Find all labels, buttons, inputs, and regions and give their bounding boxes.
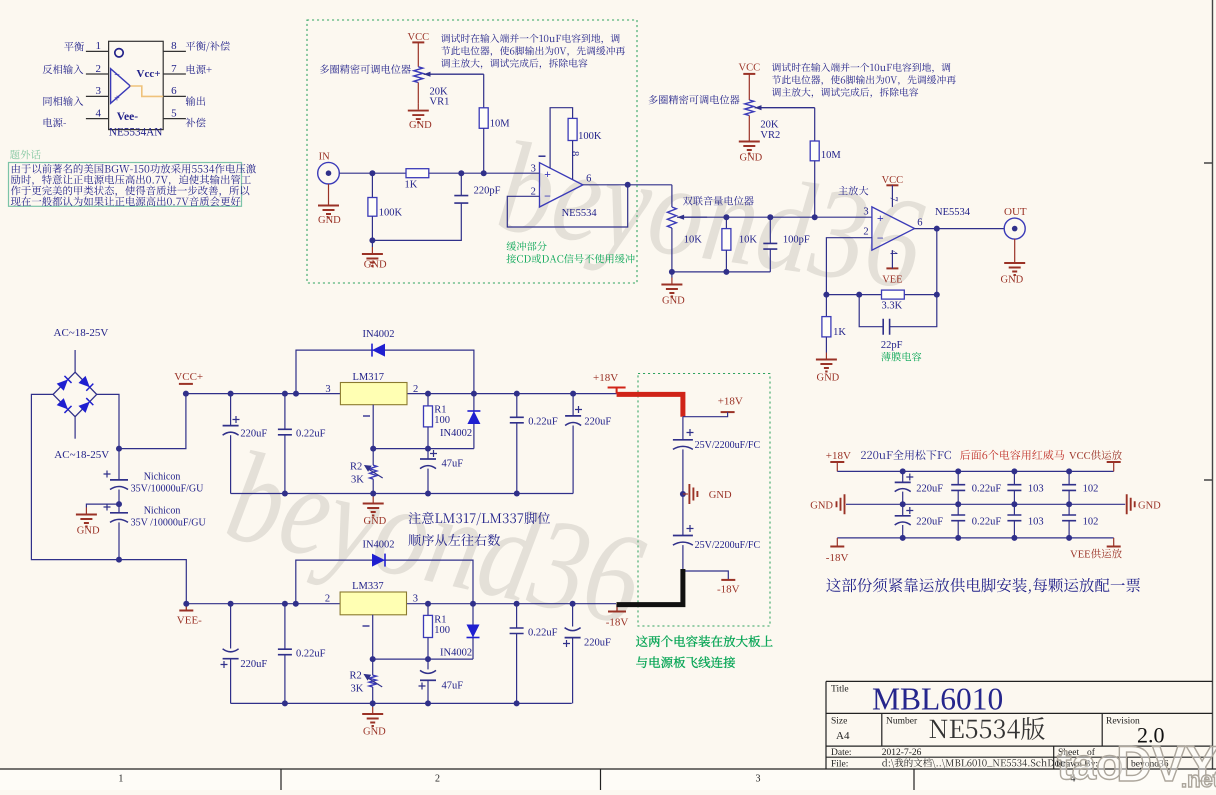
- connector OUT: [1004, 218, 1025, 239]
- svg-text:VR2: VR2: [760, 130, 780, 141]
- svg-text:+: +: [544, 167, 551, 181]
- wire to R1: [427, 604, 429, 616]
- svg-text:6: 6: [917, 218, 922, 229]
- pin 5 stub right: [163, 118, 186, 120]
- junction diode right: [471, 391, 477, 397]
- svg-text:GND: GND: [77, 526, 100, 537]
- wire 100K to pin8: [572, 141, 574, 180]
- ground LM317 section: [372, 497, 374, 503]
- junction: [514, 491, 520, 497]
- svg-text:GND: GND: [817, 373, 840, 384]
- wire IN to gnd: [328, 184, 330, 199]
- junction plus/caps: [116, 446, 122, 452]
- pin 7 stub right: [163, 73, 186, 75]
- rheostat R2 3K (neg): [369, 675, 376, 687]
- wire 1K to op-amp pin3: [429, 172, 540, 174]
- label VEE gong yunfang suffix: [1091, 549, 1122, 559]
- diode IN4002 vertical: [467, 411, 480, 424]
- junction 10M/signal: [812, 214, 818, 220]
- capacitor 0.22uF bank top: [951, 485, 965, 491]
- svg-text:GND: GND: [1001, 274, 1024, 285]
- wire: [1013, 504, 1015, 515]
- junction diode left: [293, 601, 299, 607]
- svg-text:−: −: [114, 70, 120, 81]
- svg-text:10M: 10M: [490, 118, 511, 129]
- wire diode2 branch: [472, 604, 474, 659]
- svg-text:6: 6: [171, 85, 177, 97]
- svg-text:0.22uF: 0.22uF: [972, 484, 1002, 495]
- +18V bar: [830, 461, 844, 463]
- wire 220pF to gnd node: [372, 203, 461, 240]
- label pin6 output: [186, 96, 206, 106]
- ground supply midpoint: [85, 508, 87, 514]
- wire to C 220uF: [230, 604, 232, 649]
- wire to R 100K: [371, 173, 373, 197]
- wire VCC+ rail left: [186, 393, 341, 395]
- junction 220uF out: [570, 391, 576, 397]
- svg-text:VEE: VEE: [882, 274, 902, 285]
- junction input/10M: [481, 170, 487, 176]
- wire AC bottom stub: [74, 417, 76, 439]
- junction 10K/rail: [723, 269, 729, 275]
- junction 0.22uF/gnd: [282, 491, 288, 497]
- junction mid: [900, 501, 906, 507]
- junction 3.3K/output: [934, 292, 940, 298]
- capacitor 25V/2200uF/FC 1: [673, 439, 693, 441]
- note caps on amp board line2: [636, 656, 735, 668]
- svg-text:−: −: [877, 231, 884, 245]
- ground left (sideways): [837, 494, 845, 514]
- junction top: [900, 468, 906, 474]
- junction output/fb: [934, 226, 940, 232]
- note VR1 line2: [441, 46, 625, 56]
- orange output wire: [130, 86, 163, 96]
- capacitor 102 bank top: [1062, 485, 1076, 491]
- wire R2 to gnd rail: [372, 479, 374, 493]
- wire 100pF to rail: [769, 249, 771, 272]
- note pinout line2: [408, 534, 500, 546]
- volume pot wiper arrow: [677, 216, 707, 218]
- -18V flag bar: [721, 579, 735, 581]
- ground right (sideways): [1127, 494, 1135, 514]
- wire plus to VCC+: [119, 394, 186, 449]
- svg-text:220uF: 220uF: [584, 637, 611, 648]
- -18V power bar: [608, 611, 626, 613]
- potentiometer VR2: [745, 100, 754, 116]
- wire to C 220uF: [230, 394, 232, 426]
- label pin1 pingheng: [64, 42, 84, 51]
- wire to C 0.22uF out: [516, 604, 518, 628]
- resistor 10M (main): [810, 141, 819, 161]
- wire R2 to gnd rail: [372, 687, 374, 703]
- junction output/feedback: [625, 182, 631, 188]
- junction 220uF: [228, 601, 234, 607]
- svg-text:1K: 1K: [405, 179, 418, 190]
- label pin4 power-: [44, 118, 66, 127]
- +18V flag bar: [721, 411, 735, 413]
- svg-text:Vee-: Vee-: [117, 111, 138, 123]
- ground below VR2: [748, 135, 750, 141]
- remark box: [9, 163, 242, 207]
- wire to gnd symbol: [372, 494, 374, 497]
- wire to C 220uF out: [572, 604, 574, 627]
- rheostat R2 3K: [370, 465, 377, 479]
- VR1 wiper arrow: [424, 73, 484, 75]
- resistor 100K (comp): [568, 118, 577, 140]
- wire VCC+ rail right: [407, 393, 617, 395]
- svg-text:10K: 10K: [739, 234, 758, 245]
- svg-text:7: 7: [171, 63, 177, 75]
- junction R1 top: [425, 391, 431, 397]
- wire node to gnd: [371, 240, 373, 247]
- svg-text:tao: tao: [1057, 740, 1123, 789]
- svg-text:IN4002: IN4002: [440, 648, 472, 659]
- svg-text:100pF: 100pF: [783, 234, 810, 245]
- svg-text:25V/2200uF/FC: 25V/2200uF/FC: [695, 540, 761, 551]
- wire to C 220uF out: [572, 394, 574, 416]
- svg-text:6: 6: [586, 174, 591, 185]
- svg-text:220uF: 220uF: [584, 417, 611, 428]
- svg-text:Nichicon: Nichicon: [144, 472, 181, 483]
- wire 220uF to gnd: [572, 426, 574, 494]
- svg-text:IN: IN: [319, 152, 330, 163]
- wire: [1068, 521, 1070, 538]
- wire gnd rail: [672, 271, 770, 273]
- wire output to fb rail: [936, 229, 938, 295]
- junction VEE- rail: [183, 601, 189, 607]
- svg-text:5: 5: [171, 107, 177, 119]
- wire to C 47uF: [427, 449, 429, 459]
- wire to R 1K: [825, 295, 827, 317]
- svg-text:VEE: VEE: [1070, 550, 1090, 561]
- remark line1: [12, 164, 256, 174]
- svg-text:VCC: VCC: [408, 32, 430, 43]
- svg-text:0.22uF: 0.22uF: [528, 627, 558, 638]
- svg-text:NE5534AN: NE5534AN: [109, 127, 162, 139]
- note LM317/LM337 pinout line1: [409, 512, 551, 526]
- junction bottom: [900, 535, 906, 541]
- svg-text:3K: 3K: [351, 474, 364, 485]
- svg-text:R2: R2: [350, 462, 362, 473]
- svg-text:GND: GND: [709, 490, 732, 501]
- connector IN: [318, 162, 340, 184]
- diode IN4002 top (neg): [372, 554, 385, 567]
- watermark taoDVY.net: [1057, 736, 1216, 792]
- ground (sideways): [683, 493, 688, 495]
- note red wima caps: [960, 450, 1064, 460]
- junction ADJ: [370, 656, 376, 662]
- svg-text:GND: GND: [363, 727, 386, 738]
- svg-text:3.3K: 3.3K: [882, 301, 903, 312]
- capacitor 0.22uF output: [510, 417, 524, 423]
- svg-text:102: 102: [1083, 484, 1099, 495]
- svg-text:File:: File:: [831, 759, 848, 769]
- stub: [836, 538, 838, 547]
- junction 0.22uF out: [514, 391, 520, 397]
- junction wiper/10K: [723, 214, 729, 220]
- svg-text:A4: A4: [836, 730, 850, 742]
- svg-text:100K: 100K: [379, 208, 403, 219]
- wire R1 to ADJ rail: [427, 427, 429, 449]
- wire to C big1: [118, 449, 120, 480]
- pin 4 stub left: [86, 118, 109, 120]
- wire feedback loop U1: [507, 185, 627, 227]
- label multiturn pot (VR2): [649, 95, 740, 105]
- op-amp U1 NE5534 buffer: [540, 163, 583, 207]
- VEE- power bar: [179, 610, 193, 612]
- svg-text:10K: 10K: [684, 234, 703, 245]
- thick black -18V wire: [617, 569, 683, 605]
- wire bridge minus to VEE rail: [31, 394, 186, 603]
- svg-text:−: −: [544, 189, 551, 203]
- wire 220uF to gnd rail: [230, 659, 232, 704]
- svg-text:103: 103: [1028, 484, 1044, 495]
- wire gnd rail (337): [231, 702, 572, 704]
- capacitor 220uF output: [565, 415, 581, 417]
- wire diode2 branch: [473, 394, 475, 449]
- pin 2 stub left: [86, 73, 109, 75]
- wire 22pF left: [859, 295, 883, 327]
- wire: [1068, 504, 1070, 515]
- svg-text:220uF: 220uF: [240, 659, 267, 670]
- junction 100K/220pF: [369, 237, 375, 243]
- wire ADJ down: [372, 615, 374, 659]
- wire: [902, 471, 904, 482]
- wire 22pF right: [890, 295, 937, 327]
- remark line4: [11, 196, 241, 206]
- ground below OUT: [1014, 256, 1016, 262]
- junction 220uF out: [570, 601, 576, 607]
- junction R1 top: [425, 601, 431, 607]
- svg-text:35V/10000uF/GU: 35V/10000uF/GU: [131, 484, 205, 495]
- label remark title: [10, 150, 41, 160]
- regulator LM337: [340, 592, 406, 615]
- capacitor 35V/10000uF 2: [110, 512, 128, 514]
- junction mid: [955, 501, 961, 507]
- IC body NE5534AN: [109, 41, 164, 129]
- svg-text:Date:: Date:: [831, 748, 852, 758]
- svg-text:1: 1: [118, 774, 123, 785]
- wire pin1 to 100K: [550, 108, 573, 169]
- wire VCC to VR1: [417, 42, 419, 66]
- thick red +18V wire: [617, 394, 683, 416]
- svg-text:2012-7-26: 2012-7-26: [882, 748, 922, 758]
- svg-text:0.22uF: 0.22uF: [972, 517, 1002, 528]
- wire IN to R 1K: [339, 172, 406, 174]
- resistor R1 100 (neg): [424, 615, 433, 637]
- svg-text:VCC: VCC: [1069, 451, 1091, 462]
- svg-text:35V /10000uF/GU: 35V /10000uF/GU: [131, 518, 207, 529]
- svg-text:+: +: [877, 211, 884, 225]
- note 220uF panasonic FC: [861, 450, 951, 460]
- resistor R1 100: [424, 406, 433, 427]
- svg-text:1: 1: [96, 40, 102, 52]
- wire bottom rail: [837, 537, 1113, 539]
- wire to C 0.22uF out: [516, 394, 518, 418]
- diode IN4002 vertical (neg): [467, 625, 480, 638]
- capacitor 220uF input (neg): [223, 658, 239, 660]
- svg-text:8: 8: [569, 151, 580, 156]
- wire to gnd rail: [516, 634, 518, 704]
- svg-text:GND: GND: [318, 215, 341, 226]
- wire feedback rail: [826, 294, 936, 296]
- ground below IN: [328, 199, 330, 205]
- label buffer section: [507, 241, 547, 250]
- wire ADJ rail: [373, 658, 473, 660]
- svg-text:.net: .net: [1181, 767, 1216, 790]
- junction pot/gnd rail: [669, 269, 675, 275]
- VEE bar: [1107, 546, 1121, 548]
- svg-text:AC~18-25V: AC~18-25V: [54, 327, 109, 339]
- junction bottom: [955, 535, 961, 541]
- svg-text:NE5534: NE5534: [562, 208, 598, 219]
- svg-text:IN4002: IN4002: [362, 329, 394, 340]
- wire ADJ down: [372, 405, 374, 449]
- svg-text:GND: GND: [364, 516, 387, 527]
- svg-text:100: 100: [434, 625, 450, 636]
- wire to R 10K: [725, 217, 727, 228]
- wire: [1013, 521, 1015, 538]
- stub: [836, 462, 838, 471]
- wire VEE rail left: [186, 603, 340, 605]
- wire cap1 to cap2: [682, 449, 684, 535]
- label pin5 comp: [186, 118, 206, 127]
- svg-text:Vcc+: Vcc+: [137, 68, 161, 80]
- svg-text:Title: Title: [831, 685, 849, 695]
- wire VR1 to gnd: [417, 83, 419, 104]
- capacitor 103 bank top: [1007, 485, 1021, 491]
- svg-text:Number: Number: [886, 717, 918, 727]
- potentiometer volume 10K: [667, 207, 676, 228]
- junction big caps bottom: [116, 557, 122, 563]
- junction R1/47uF: [425, 656, 431, 662]
- svg-text:GND: GND: [409, 120, 432, 131]
- ADJ pin mark: [363, 415, 370, 417]
- svg-text:25V/2200uF/FC: 25V/2200uF/FC: [695, 440, 761, 451]
- stub: [1113, 462, 1115, 471]
- svg-text:1K: 1K: [833, 327, 846, 338]
- capacitor 100pF: [763, 243, 777, 249]
- label pin3 noninverting input: [43, 96, 83, 106]
- svg-text:2: 2: [96, 63, 102, 75]
- wire 0.22uF to gnd: [516, 423, 518, 494]
- label pin2 inverting input: [43, 64, 84, 74]
- junction mid: [1066, 501, 1072, 507]
- svg-text:GND: GND: [810, 500, 833, 511]
- wire VCC pin7: [891, 185, 893, 207]
- wire ADJ to R2: [372, 449, 374, 466]
- wire bridge plus down: [97, 394, 119, 448]
- wire: [1068, 471, 1070, 484]
- note VR2 line1: [772, 63, 951, 73]
- junction 1K/fb: [823, 292, 829, 298]
- sheet right border: [1204, 0, 1213, 769]
- svg-text:3K: 3K: [351, 683, 364, 694]
- wire wiper to R 10M: [814, 108, 816, 141]
- junction 47uF/gnd: [425, 700, 431, 706]
- svg-text:GND: GND: [740, 153, 763, 164]
- svg-text:3: 3: [531, 164, 536, 175]
- buffer section dashed box: [307, 20, 637, 283]
- wire: [902, 492, 904, 505]
- wire R1 to ADJ rail: [427, 638, 429, 660]
- capacitor 0.22uF bank bottom: [951, 515, 965, 521]
- wire to gnd: [671, 272, 673, 278]
- svg-text:-18V: -18V: [826, 552, 849, 564]
- svg-text:220pF: 220pF: [474, 186, 501, 197]
- capacitor 102 bank bottom: [1062, 515, 1076, 521]
- note VR1 line1: [441, 34, 620, 44]
- svg-text:Revision: Revision: [1106, 717, 1140, 727]
- label main amp: [838, 186, 868, 195]
- capacitor 220uF bank top: [895, 481, 911, 483]
- diode bridge bottom-left: [57, 398, 72, 413]
- wire ADJ rail: [373, 448, 474, 450]
- junction R1/47uF: [425, 446, 431, 452]
- svg-text:2: 2: [325, 594, 330, 605]
- svg-text:-18V: -18V: [606, 617, 629, 629]
- wire big1 to big2: [118, 490, 120, 513]
- junction mid: [1011, 501, 1017, 507]
- title block frame: [826, 681, 1213, 769]
- svg-text:GND: GND: [1138, 500, 1161, 511]
- remark line3: [11, 186, 249, 197]
- svg-text:3: 3: [756, 774, 761, 785]
- stub: [1113, 538, 1115, 547]
- junction input/220pF: [458, 170, 464, 176]
- svg-text:0.22uF: 0.22uF: [296, 649, 326, 660]
- wire gnd rail (317): [231, 493, 573, 495]
- svg-text:100: 100: [434, 415, 450, 426]
- wire gnd rail: [846, 503, 1125, 505]
- wire midpoint to gnd: [86, 504, 119, 507]
- wire flag to cap: [683, 412, 728, 417]
- resistor 10M (buffer): [479, 108, 488, 129]
- svg-text:103: 103: [1028, 517, 1044, 528]
- pin 1 stub left: [86, 50, 109, 52]
- VCC power bar: [743, 73, 755, 75]
- svg-text:10M: 10M: [821, 150, 842, 161]
- junction midpoint: [116, 501, 122, 507]
- wire: [1013, 490, 1015, 504]
- +18V stub: [616, 388, 618, 394]
- number NE5534 ban: [930, 717, 1045, 740]
- junction top: [1066, 468, 1072, 474]
- wire 10M to input line: [483, 128, 485, 173]
- wire 1K to gnd: [825, 337, 827, 353]
- wire to -18V flag: [683, 571, 728, 580]
- ground below VR1: [417, 104, 419, 110]
- pin 8 stub right: [163, 50, 186, 52]
- junction: [514, 700, 520, 706]
- capacitor 220uF bank bottom: [895, 515, 911, 517]
- svg-text:GND: GND: [364, 260, 387, 271]
- VCC bar: [1107, 461, 1121, 463]
- svg-text:+18V: +18V: [826, 450, 851, 462]
- junction top: [955, 468, 961, 474]
- svg-text:220uF: 220uF: [916, 517, 943, 528]
- capacitor 22pF: [883, 319, 889, 335]
- VEE power bar: [886, 267, 898, 269]
- diode bridge bottom-right: [78, 398, 93, 413]
- wire big2 to rail: [118, 522, 120, 559]
- junction 220uF: [228, 391, 234, 397]
- svg-text:VR1: VR1: [430, 96, 450, 107]
- wire to C 100pF: [769, 217, 771, 243]
- capacitor 103 bank bottom: [1007, 515, 1021, 521]
- bottom margin strip: [0, 770, 1216, 790]
- wire U1 output: [583, 184, 672, 186]
